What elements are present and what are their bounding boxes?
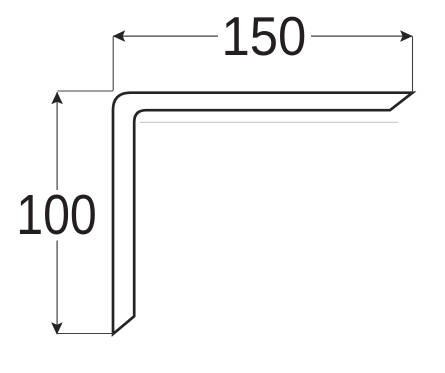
left arrowhead of 150 dimension <box>113 30 126 42</box>
extension line from 100 bottom end right to bracket foot <box>57 333 113 335</box>
bracket profile outline <box>113 93 413 334</box>
dimension line 100 top segment <box>56 92 58 190</box>
svg-text:150: 150 <box>221 6 306 67</box>
faint inner flange edge <box>140 121 398 123</box>
top arrowhead of 100 dimension <box>51 92 63 105</box>
svg-text:100: 100 <box>16 184 97 247</box>
extension line from 150 left end down to bracket corner <box>112 37 114 91</box>
right arrowhead of 150 dimension <box>400 30 413 42</box>
extension line from 100 top end right to bracket corner <box>58 90 114 92</box>
dimension line 150 right segment <box>311 35 413 37</box>
bottom arrowhead of 100 dimension <box>51 322 63 334</box>
dimension line 150 left segment <box>113 35 218 37</box>
dimension line 100 bottom segment <box>56 241 58 335</box>
extension line from 150 right end down to bracket tip <box>412 37 414 92</box>
